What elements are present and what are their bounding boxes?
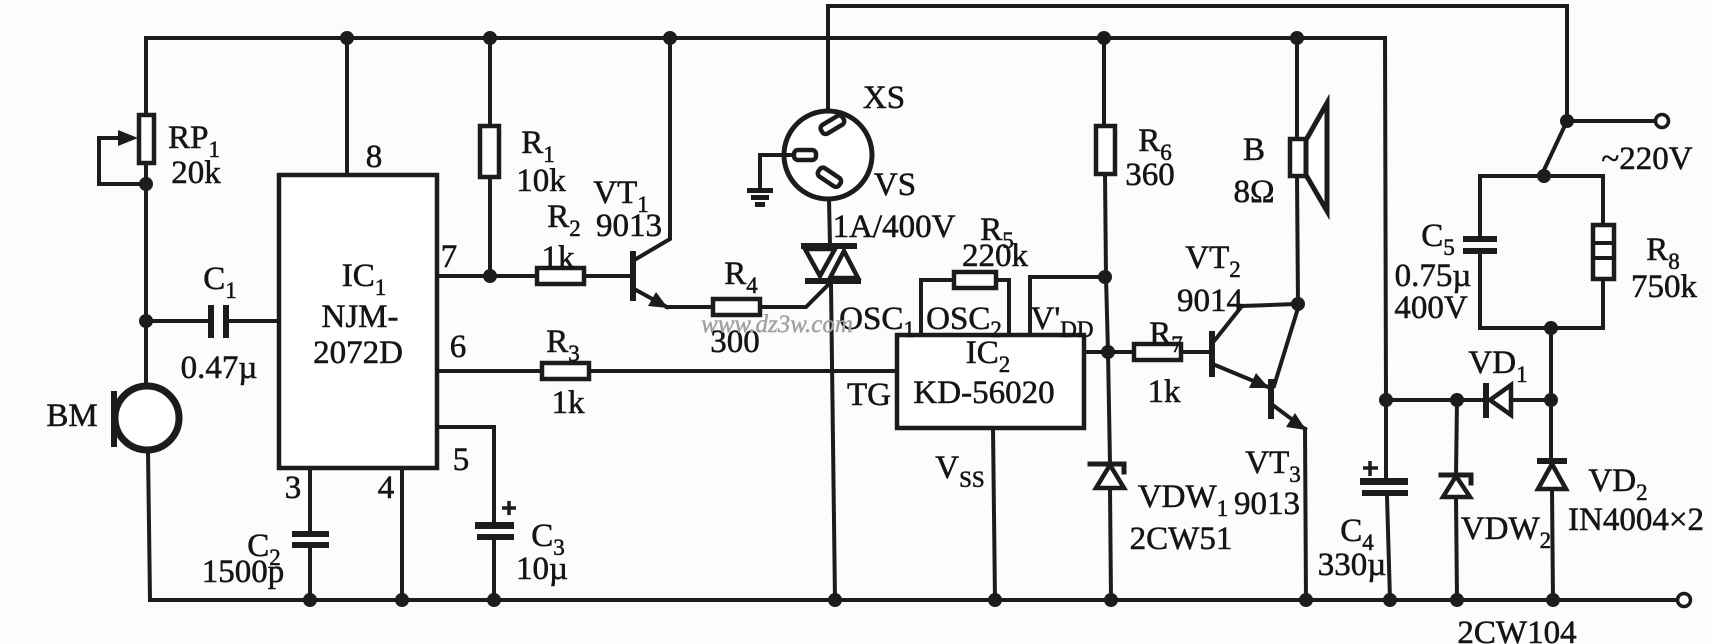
svg-text:C1: C1 (203, 261, 237, 303)
resistor R4 (713, 299, 760, 315)
svg-text:220k: 220k (962, 238, 1029, 274)
svg-text:1500p: 1500p (202, 554, 285, 590)
resistor R6 (1096, 38, 1115, 464)
wire to mains terminal (1567, 119, 1656, 123)
node junction top rail R6 (1097, 31, 1111, 45)
diode VD1 (1483, 383, 1511, 418)
node mains terminal (1656, 115, 1669, 128)
svg-text:9014: 9014 (1177, 283, 1243, 319)
svg-text:330µ: 330µ (1318, 547, 1387, 583)
svg-text:1k: 1k (552, 385, 586, 421)
node junction bottom rail VT3 emitter (1299, 593, 1313, 607)
node junction bottom rail VSS (988, 593, 1002, 607)
node junction bottom rail pin4 (395, 593, 409, 607)
wire top supply rail (146, 36, 1385, 40)
wire left spine (RP1/C1/BM column) (144, 38, 148, 115)
svg-text:VD1: VD1 (1468, 345, 1527, 387)
svg-text:R8: R8 (1646, 232, 1680, 274)
node junction pin7/R1 (483, 269, 497, 283)
svg-text:~220V: ~220V (1601, 141, 1692, 177)
potentiometer RP1 (99, 115, 154, 184)
wire pin 8 (345, 38, 349, 175)
svg-text:www.dz3w.com: www.dz3w.com (701, 311, 853, 338)
svg-text:2CW51: 2CW51 (1130, 521, 1233, 557)
zener diode VDW2 (1441, 400, 1471, 600)
svg-text:1A/400V: 1A/400V (833, 209, 956, 245)
svg-text:VD2: VD2 (1588, 463, 1647, 505)
node junction snubber top (1537, 169, 1551, 183)
node junction top rail VT1 collector (663, 31, 677, 45)
svg-text:4: 4 (378, 470, 395, 506)
IC IC2 KD-56020 (897, 335, 1084, 428)
node junction VDD/R6 (1098, 270, 1112, 284)
resistor R1 (480, 38, 499, 276)
svg-text:R3: R3 (546, 324, 580, 366)
node junction top rail R1 (483, 31, 497, 45)
svg-text:10k: 10k (516, 163, 566, 199)
transistor VT3 (1268, 305, 1306, 600)
svg-text:3: 3 (285, 470, 302, 506)
svg-text:B: B (1243, 132, 1265, 168)
svg-text:10µ: 10µ (516, 551, 568, 587)
pin tab OSC2 (921, 280, 1009, 335)
node junction VD1 right (1544, 393, 1558, 407)
svg-text:R4: R4 (724, 256, 758, 298)
ground (747, 155, 794, 207)
svg-text:400V: 400V (1394, 290, 1468, 326)
node junction R7 wire/R6 (1101, 345, 1115, 359)
resistor R7 (1134, 344, 1181, 360)
node junction RP1 bottom (139, 177, 153, 191)
capacitor C5 (1463, 176, 1497, 328)
svg-text:9013: 9013 (1234, 486, 1300, 522)
wire pin 6 to TG (437, 369, 897, 373)
node junction C1 left (139, 314, 153, 328)
resistor R8 (1593, 176, 1614, 328)
svg-text:2CW104: 2CW104 (1457, 615, 1576, 644)
svg-text:8Ω: 8Ω (1233, 174, 1274, 210)
node junction collectors (1291, 297, 1305, 311)
node junction snubber bottom (1544, 321, 1558, 335)
svg-text:TG: TG (847, 377, 891, 413)
wire pin 3 (308, 468, 312, 532)
svg-text:0.47µ: 0.47µ (181, 350, 258, 386)
node junction bottom rail C2 (303, 593, 317, 607)
transistor VT1 (630, 38, 670, 308)
wire bottom ground rail (150, 598, 1677, 602)
socket XS (784, 6, 872, 199)
svg-text:IN4004×2: IN4004×2 (1568, 502, 1704, 538)
svg-text:R1: R1 (521, 125, 555, 167)
svg-text:VDW2: VDW2 (1461, 511, 1551, 553)
capacitor C2 (292, 531, 329, 600)
node junction C4 top (1379, 393, 1393, 407)
svg-text:BM: BM (46, 398, 97, 434)
zener diode VDW1 (1090, 464, 1124, 600)
svg-text:R7: R7 (1149, 316, 1183, 357)
svg-text:OSC2: OSC2 (926, 301, 1002, 342)
node junction bottom rail triac (828, 593, 842, 607)
svg-text:8: 8 (366, 139, 383, 175)
svg-text:VT2: VT2 (1185, 240, 1241, 282)
svg-text:1k: 1k (542, 240, 576, 276)
IC IC1 NJM-2072D (279, 175, 437, 468)
wire dc link (1386, 398, 1551, 402)
svg-text:5: 5 (453, 442, 470, 478)
resistor R5 (954, 272, 996, 288)
svg-text:VT3: VT3 (1245, 445, 1301, 487)
diode VD2 (1537, 328, 1567, 600)
svg-text:1k: 1k (1148, 374, 1182, 410)
capacitor C1 (146, 305, 279, 338)
wire mains down to snubber (1544, 121, 1567, 176)
wire pin 5 (437, 427, 494, 523)
wire IC2 output to VT2 base (1084, 350, 1209, 354)
wire pin 7 to VT1 base (437, 274, 630, 278)
svg-text:KD-56020: KD-56020 (913, 375, 1054, 411)
node junction mains (1560, 114, 1574, 128)
svg-text:20k: 20k (171, 155, 221, 191)
svg-text:360: 360 (1125, 157, 1175, 193)
node junction top rail speaker (1290, 31, 1304, 45)
wire snubber top (1480, 174, 1603, 178)
resistor R2 (537, 268, 584, 284)
wire topmost mains rail (828, 6, 1567, 121)
node junction bottom rail C4 (1383, 593, 1397, 607)
svg-text:V'DD: V'DD (1030, 301, 1093, 342)
svg-text:C5: C5 (1421, 218, 1455, 260)
wire VT1 emitter to triac gate (667, 282, 831, 307)
svg-text:2072D: 2072D (313, 335, 403, 371)
transistor VT2 (1209, 304, 1297, 388)
triac VS (801, 243, 861, 600)
svg-text:750k: 750k (1631, 269, 1698, 305)
svg-text:VS: VS (874, 167, 916, 203)
node junction bottom rail VDW2 (1450, 593, 1464, 607)
node junction VDW2 top (1450, 393, 1464, 407)
node junction bottom rail VD2 (1546, 593, 1560, 607)
wire pin 4 (400, 468, 404, 600)
svg-text:NJM-: NJM- (321, 299, 398, 335)
wire C4 column (1385, 38, 1386, 478)
svg-text:6: 6 (450, 329, 467, 365)
svg-text:XS: XS (863, 80, 905, 116)
node bottom-right mains terminal (1678, 594, 1691, 607)
capacitor C4 (1360, 461, 1408, 600)
node junction top rail pin8 (340, 31, 354, 45)
svg-text:9013: 9013 (596, 208, 662, 244)
svg-text:R2: R2 (547, 199, 581, 241)
wire snubber bottom (1480, 326, 1603, 330)
svg-text:0.75µ: 0.75µ (1395, 258, 1472, 294)
resistor R3 (542, 363, 589, 379)
pin tab VDD (1030, 277, 1105, 335)
svg-text:VSS: VSS (935, 450, 984, 492)
wire VSS pin (993, 428, 995, 600)
svg-text:7: 7 (441, 239, 458, 275)
wire XS to triac (829, 199, 830, 246)
svg-text:VDW1: VDW1 (1138, 479, 1228, 521)
speaker B (1290, 38, 1327, 304)
microphone BM (111, 386, 179, 450)
node junction bottom rail VDW1 (1104, 593, 1118, 607)
node junction bottom rail C3 (487, 593, 501, 607)
capacitor C3 (475, 501, 516, 600)
